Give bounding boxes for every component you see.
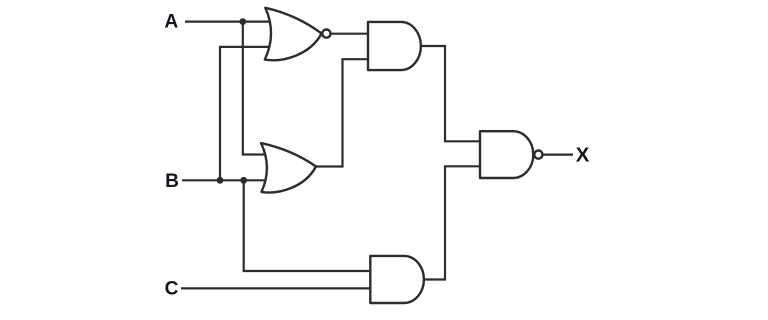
- wire B up to NOR gate second input: [220, 47, 272, 180]
- wire AND1 output down to NAND top input: [421, 46, 482, 141]
- wire C horizontal: [181, 287, 372, 289]
- AND gate U4 (bottom) body: [370, 256, 424, 303]
- NOR gate U1 bubble: [322, 29, 330, 37]
- svg-text:B: B: [165, 171, 179, 192]
- wire OR output up to AND1 bottom input: [316, 59, 370, 166]
- svg-text:C: C: [165, 279, 179, 300]
- wire AND2 output up to NAND bottom input: [424, 166, 482, 279]
- node junction dot on wire B (to AND2): [240, 177, 247, 184]
- node junction dot on wire B (to NOR): [217, 177, 224, 184]
- NAND gate U5 bubble: [534, 151, 542, 159]
- svg-text:A: A: [164, 12, 178, 33]
- wire NAND output to X: [543, 154, 574, 156]
- wire A vertical down to OR gate top input: [243, 22, 268, 155]
- wire B horizontal: [182, 179, 268, 181]
- NOR gate U1 body: [265, 8, 322, 60]
- wire B down to bottom AND gate top input: [244, 180, 372, 271]
- wire NOR output to AND1 top input: [331, 33, 371, 35]
- wire A horizontal: [185, 21, 272, 23]
- OR gate U2 body: [261, 143, 316, 192]
- NAND gate U5 body: [480, 131, 533, 178]
- svg-text:X: X: [576, 144, 590, 166]
- node junction dot on wire A: [239, 18, 246, 25]
- AND gate U3 (top) body: [368, 22, 421, 70]
